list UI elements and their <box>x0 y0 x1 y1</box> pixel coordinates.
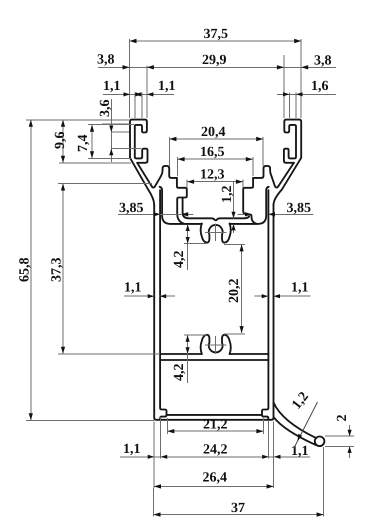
dim 29,9 <box>98 53 336 118</box>
svg-text:24,2: 24,2 <box>203 443 228 458</box>
svg-text:12,3: 12,3 <box>200 168 225 183</box>
component: middle screw boss with port <box>201 335 231 354</box>
dim 20,4 <box>169 125 263 166</box>
svg-text:20,4: 20,4 <box>201 125 226 140</box>
wire: right tongue diagonal walls <box>274 158 302 205</box>
svg-text:1,1: 1,1 <box>103 79 121 94</box>
svg-text:1,1: 1,1 <box>124 281 142 296</box>
svg-text:37,5: 37,5 <box>204 27 229 42</box>
dim 1,2 floor vertical <box>220 182 236 233</box>
svg-text:3,8: 3,8 <box>97 53 115 68</box>
node: middle boss crosshair <box>205 336 227 354</box>
dim 16,5 <box>178 145 253 176</box>
dim 3,6 left vertical <box>98 99 141 162</box>
dim 21,2 bottom <box>167 417 263 434</box>
wire: bottom inner edge <box>167 414 263 416</box>
svg-text:1,2: 1,2 <box>220 186 235 204</box>
svg-text:7,4: 7,4 <box>76 135 91 153</box>
wire: left tongue diagonal walls to Y junction <box>130 158 154 205</box>
dim 4,2 upper boss <box>172 225 207 271</box>
dim 12,3 <box>187 168 243 189</box>
svg-text:3,8: 3,8 <box>314 54 332 69</box>
svg-text:21,2: 21,2 <box>203 417 228 432</box>
svg-text:2: 2 <box>335 415 350 422</box>
svg-text:1,1: 1,1 <box>291 281 309 296</box>
svg-text:26,4: 26,4 <box>203 471 228 486</box>
node: upper boss crosshair <box>205 223 227 241</box>
dim 9,6 left vertical <box>53 120 131 163</box>
svg-text:4,2: 4,2 <box>172 251 187 269</box>
wire: right wall inner face with bottom foot <box>262 190 268 420</box>
dim 26,4 bottom <box>154 422 274 489</box>
dim 65,8 left vertical <box>18 120 155 421</box>
node: left 3.85 slot boundary and floor bottom left <box>160 187 202 224</box>
dim 4,2 middle boss <box>172 335 207 383</box>
svg-text:1,6: 1,6 <box>311 79 329 94</box>
svg-text:3,85: 3,85 <box>119 201 144 216</box>
svg-text:37,3: 37,3 <box>50 258 65 283</box>
wire: left outer wall <box>154 205 273 420</box>
svg-text:29,9: 29,9 <box>202 53 227 68</box>
component: bottom right curved hook with ball end <box>274 403 325 447</box>
wire: right channel wall inner steps <box>243 178 256 224</box>
dim 37,3 left vertical <box>50 184 161 354</box>
profile outline: right tongue with C-channel <box>284 120 301 163</box>
dim 37 bottom <box>154 447 324 517</box>
component: upper screw boss with port <box>201 223 231 242</box>
profile outline: left tongue with C-channel <box>130 120 148 163</box>
svg-text:9,6: 9,6 <box>53 132 68 150</box>
dim 37,5 top <box>130 27 302 118</box>
dim 1,1 mid right <box>255 281 311 299</box>
wire: left channel wall inner steps <box>177 178 249 224</box>
svg-text:1,1: 1,1 <box>123 442 141 457</box>
dim 2 hook ball <box>325 415 354 459</box>
dim 3,85 left <box>118 201 194 217</box>
wire: channel floor bottom right and right slot boundary <box>230 187 269 224</box>
svg-text:1,1: 1,1 <box>291 444 309 459</box>
dim 3,85 right <box>238 201 314 217</box>
dim 1,1 left pair <box>103 79 176 118</box>
svg-text:65,8: 65,8 <box>18 258 33 283</box>
svg-text:4,2: 4,2 <box>172 364 187 382</box>
wire: left wall inner face with bottom foot <box>160 190 166 420</box>
svg-text:3,6: 3,6 <box>98 100 113 118</box>
dim 3,8 right <box>301 54 331 70</box>
svg-text:16,5: 16,5 <box>200 145 225 160</box>
dim 1,6 right tongue <box>277 79 336 118</box>
wire: middle web <box>160 354 268 360</box>
svg-text:37: 37 <box>231 501 245 516</box>
svg-text:1,1: 1,1 <box>158 79 176 94</box>
svg-text:3,85: 3,85 <box>287 201 312 216</box>
dim 24,2 bottom with 1,1 pair <box>120 417 310 459</box>
dim 3,8 left <box>97 53 130 70</box>
node: right Y junction and flare nub <box>253 166 278 188</box>
dim 1,1 mid left <box>124 281 175 299</box>
dim 20,2 vertical <box>224 244 245 333</box>
node: left Y junction and flare nub <box>152 166 177 188</box>
dim 7,4 left vertical <box>76 125 134 159</box>
dim 1,2 hook leader <box>289 389 317 448</box>
svg-text:20,2: 20,2 <box>227 279 242 304</box>
